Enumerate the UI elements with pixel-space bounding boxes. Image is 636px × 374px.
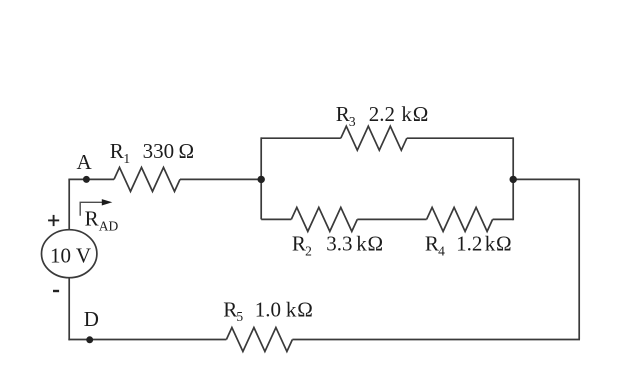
svg-text:5: 5: [236, 309, 243, 324]
svg-text:2.2: 2.2: [369, 102, 395, 126]
resistor R4: [427, 207, 493, 231]
R_AD measurement arrow: [80, 199, 112, 216]
resistor R5: [226, 328, 292, 352]
svg-text:Ω: Ω: [297, 297, 313, 321]
svg-text:1.2: 1.2: [456, 232, 482, 256]
wire right horizontal to outer corner: [513, 178, 579, 180]
svg-text:1: 1: [123, 151, 130, 166]
wire bottom right segment: [292, 339, 580, 341]
wire top branch left segment: [261, 137, 341, 139]
voltage source V1 circle: [41, 230, 96, 278]
svg-text:330: 330: [143, 139, 175, 163]
polarity minus sign: [53, 290, 59, 292]
resistor R2: [291, 207, 357, 231]
svg-text:10 V: 10 V: [50, 244, 91, 268]
node A junction dot: [83, 176, 90, 183]
svg-text:3.3: 3.3: [326, 232, 352, 256]
svg-text:k: k: [485, 232, 496, 256]
wire right outer vertical: [578, 179, 580, 340]
wire top branch right segment: [407, 137, 513, 139]
node junction dot right of parallel box: [510, 176, 517, 183]
resistor R1: [114, 167, 180, 191]
wire bottom branch left segment: [261, 218, 291, 220]
svg-text:Ω: Ω: [496, 232, 512, 256]
svg-text:Ω: Ω: [179, 139, 195, 163]
wire bottom branch right segment: [493, 218, 514, 220]
polarity plus sign: [48, 215, 59, 226]
wire parallel box right vertical: [512, 137, 514, 220]
svg-text:R: R: [85, 207, 99, 231]
svg-text:AD: AD: [99, 218, 119, 233]
wire left vertical upper (source top to node A corner): [68, 179, 70, 229]
svg-text:R: R: [425, 232, 439, 256]
wire left vertical lower (source bottom to bottom wire): [68, 278, 70, 341]
wire R1 to parallel box: [180, 178, 261, 180]
svg-text:Ω: Ω: [413, 102, 429, 126]
wire bottom left segment (R5 to node D to corner): [68, 339, 226, 341]
svg-text:4: 4: [438, 244, 445, 259]
node D junction dot: [86, 336, 93, 343]
svg-text:3: 3: [349, 114, 356, 129]
svg-text:1.0: 1.0: [255, 297, 281, 321]
svg-text:R: R: [336, 102, 350, 126]
svg-text:2: 2: [305, 244, 312, 259]
svg-text:D: D: [84, 307, 99, 331]
svg-text:k: k: [356, 232, 367, 256]
svg-text:k: k: [286, 297, 297, 321]
svg-text:k: k: [401, 102, 412, 126]
wire bottom branch middle segment: [357, 218, 426, 220]
svg-text:R: R: [292, 232, 306, 256]
svg-text:A: A: [77, 150, 93, 174]
wire top-left horizontal (corner to R1): [68, 178, 114, 180]
svg-text:R: R: [110, 139, 124, 163]
resistor R3: [341, 126, 407, 150]
node junction dot left of parallel box: [258, 176, 265, 183]
wire parallel box left vertical: [260, 137, 262, 219]
svg-text:R: R: [223, 297, 237, 321]
svg-text:Ω: Ω: [368, 232, 384, 256]
